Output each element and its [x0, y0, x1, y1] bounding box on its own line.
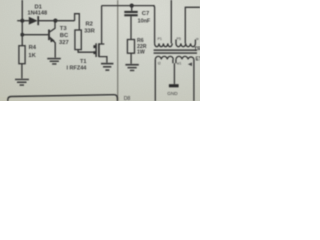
wire vertical from top edge through node A to R4: [21, 0, 23, 46]
wire node A to diode: [22, 20, 29, 22]
svg-text:R4: R4: [29, 45, 37, 51]
node D junction dot: [130, 4, 134, 8]
wire T1 drain up to rail: [101, 6, 103, 44]
wire R4 to ground: [21, 64, 23, 79]
transformer TR primary winding 2: [176, 40, 195, 47]
svg-text:327: 327: [59, 40, 69, 46]
resistor R2: [75, 30, 81, 50]
shadow strip below caption frame: [0, 97, 120, 101]
frame border of caption box: [8, 95, 118, 101]
svg-text:T3: T3: [60, 26, 68, 32]
wire transformer left primary lead: [153, 6, 155, 44]
transformer TR secondary winding 2: [176, 56, 194, 59]
svg-text:w: w: [196, 37, 199, 41]
seam line (page column separator): [117, 0, 119, 101]
wire transformer right primary lead with corner: [185, 7, 200, 43]
wire secondary right lead: [193, 59, 195, 101]
wire secondary center tap lead: [172, 59, 174, 63]
ground bar GND: [169, 84, 179, 87]
capacitor C7: [124, 6, 137, 40]
svg-text:D1: D1: [35, 4, 43, 10]
svg-text:R2: R2: [86, 22, 93, 28]
diode D1: [29, 16, 38, 25]
svg-text:GND: GND: [167, 91, 178, 96]
svg-text:C7: C7: [142, 11, 149, 17]
transistor T3 BC327: [49, 21, 55, 58]
svg-text:1K: 1K: [28, 53, 36, 59]
svg-text:BC: BC: [60, 33, 69, 39]
polarity arrow: [188, 62, 192, 66]
transformer core: [154, 49, 197, 53]
svg-text:TR1: TR1: [194, 47, 200, 53]
node C junction dot: [20, 33, 24, 37]
ground (T3 emitter): [47, 58, 61, 65]
wire jog into R2: [75, 14, 80, 30]
svg-text:t2: t2: [158, 62, 161, 66]
ground (R6): [125, 64, 138, 71]
ground (T1 source): [101, 63, 113, 71]
svg-text:T1: T1: [80, 59, 86, 65]
svg-text:33R: 33R: [84, 28, 95, 34]
wire secondary left lead: [154, 59, 156, 101]
wire stub left of node A: [17, 20, 22, 22]
paper background: [0, 0, 200, 101]
resistor R4: [19, 46, 25, 64]
wire R6 to ground: [130, 53, 132, 64]
resistor R6: [127, 40, 134, 54]
wire base of T3: [22, 34, 48, 36]
wire R2 to T1 gate: [78, 50, 95, 53]
transformer TR secondary winding 1: [155, 56, 173, 59]
svg-text:1N4148: 1N4148: [28, 11, 48, 17]
transistor T1 IRFZ44 mosfet: [93, 43, 107, 62]
svg-text:1W: 1W: [137, 50, 145, 56]
svg-text:P1: P1: [158, 37, 162, 41]
wire transformer mid primary lead: [170, 0, 172, 43]
node B junction dot: [53, 19, 57, 23]
ground (R4): [15, 79, 29, 86]
svg-text:w1: w1: [177, 62, 182, 66]
labels: [28, 4, 206, 102]
wire diode to R2 jog: [39, 20, 75, 22]
svg-text:P5: P5: [177, 37, 181, 41]
wire top rail: [102, 5, 155, 7]
svg-text:I RFZ44: I RFZ44: [67, 66, 88, 72]
node A junction dot: [20, 19, 24, 23]
svg-text:D8: D8: [124, 96, 131, 101]
svg-text:10nF: 10nF: [138, 18, 151, 24]
transformer TR primary winding 1: [155, 43, 173, 46]
svg-text:ETD: ETD: [196, 57, 201, 63]
